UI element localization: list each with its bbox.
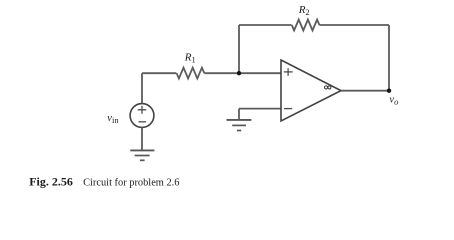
node A: junction dot at + input [237,71,241,75]
ground (at op-amp - input) [227,120,252,131]
op-amp + input polarity mark [284,68,293,76]
wire: R1 to op-amp + input [204,72,281,74]
resistor R2 [292,20,320,31]
wire: top feedback left lead [239,24,292,26]
ground (under Vin source) [130,150,154,160]
wire: source top vertical [141,73,143,103]
wire: op-amp output [341,90,389,92]
source + polarity mark [138,106,147,114]
node B: output junction dot [387,89,391,93]
source - polarity mark [139,121,147,123]
wire: source bottom vertical [141,127,143,150]
wire: - input drop to ground [238,109,240,120]
voltage source Vin circle [130,104,154,128]
svg-text:Fig. 2.56Circuit for problem 2: Fig. 2.56Circuit for problem 2.6 [29,174,179,188]
wire: op-amp - input horizontal [239,108,281,110]
svg-text:R1: R1 [184,52,196,65]
svg-text:vo: vo [389,94,398,106]
wire: top feedback right lead [319,24,389,26]
wire: left vertical of feedback loop [238,25,240,73]
op-amp - input polarity mark [284,108,292,110]
svg-text:vin: vin [107,113,119,125]
wire: right vertical of feedback loop [388,25,390,91]
svg-text:R2: R2 [298,4,310,17]
op-amp infinity gain label [324,86,331,89]
op-amp U1 triangle [281,60,341,121]
wire: source to R1 lead [142,72,176,74]
resistor R1 [177,68,205,79]
